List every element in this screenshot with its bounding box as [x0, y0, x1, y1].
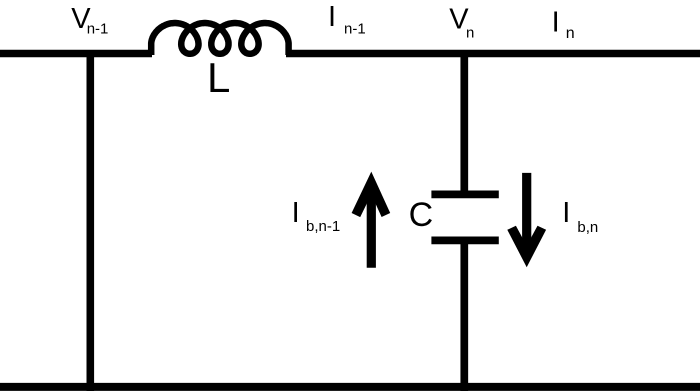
svg-text:b,n: b,n	[577, 219, 598, 236]
svg-text:L: L	[207, 54, 230, 101]
arrow I_b,n-1 (up) shaft	[367, 188, 376, 268]
wire: top rail left segment	[0, 50, 152, 58]
svg-text:I: I	[562, 197, 570, 229]
svg-text:C: C	[409, 196, 434, 234]
wire: left vertical branch	[87, 50, 95, 391]
arrow I_b,n (down) head	[507, 226, 546, 268]
svg-text:n: n	[566, 25, 575, 42]
wire: bottom rail	[0, 383, 700, 391]
svg-text:I: I	[292, 197, 300, 229]
capacitor C bottom plate	[431, 237, 498, 245]
capacitor C top plate	[431, 191, 498, 199]
svg-text:I: I	[552, 7, 560, 39]
svg-text:n-1: n-1	[344, 21, 366, 38]
wire: capacitor branch lower segment	[460, 240, 468, 391]
svg-text:I: I	[328, 1, 336, 33]
svg-text:b,n-1: b,n-1	[306, 218, 340, 235]
wire: top rail right segment	[286, 50, 700, 58]
inductor L coil	[151, 23, 288, 55]
wire: capacitor branch upper segment	[460, 50, 468, 194]
arrow I_b,n-1 (up) head	[352, 172, 391, 218]
svg-text:n-1: n-1	[87, 21, 109, 38]
svg-text:n: n	[466, 24, 474, 41]
arrow I_b,n (down) shaft	[522, 173, 531, 250]
